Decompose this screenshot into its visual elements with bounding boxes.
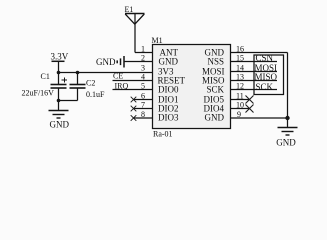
svg-text:7: 7 bbox=[141, 101, 145, 110]
svg-text:15: 15 bbox=[236, 54, 244, 63]
junction rail C1 bbox=[57, 71, 61, 75]
wire 3.3V stem bbox=[58, 61, 60, 72]
wire pin15 CSN bbox=[231, 61, 278, 63]
svg-text:0.1uF: 0.1uF bbox=[86, 90, 105, 99]
junction right GND bbox=[285, 116, 289, 120]
power rail 3.3V bar bbox=[52, 60, 65, 62]
svg-text:16: 16 bbox=[236, 45, 244, 54]
svg-text:22uF/16V: 22uF/16V bbox=[22, 89, 55, 98]
ground symbol left bbox=[49, 111, 69, 119]
svg-text:CSN: CSN bbox=[256, 53, 274, 63]
svg-text:14: 14 bbox=[236, 64, 244, 73]
wire pin8 stub bbox=[133, 117, 153, 119]
capacitor C2 stem bottom bbox=[77, 89, 79, 101]
wire pin2 GND stub bbox=[124, 61, 153, 63]
svg-text:3.3V: 3.3V bbox=[51, 52, 69, 62]
svg-text:GND: GND bbox=[96, 57, 116, 67]
svg-text:C2: C2 bbox=[86, 79, 95, 88]
antenna E1 bbox=[125, 13, 145, 15]
svg-text:GND: GND bbox=[50, 120, 70, 130]
svg-text:2: 2 bbox=[141, 54, 145, 63]
svg-text:1: 1 bbox=[141, 45, 145, 54]
no-connect X pin8 bbox=[131, 115, 137, 121]
no-connect X pin7 bbox=[131, 106, 137, 112]
ground symbol rotated at pin2 bbox=[117, 56, 124, 68]
svg-text:C1: C1 bbox=[41, 72, 50, 81]
capacitor C1 plates bbox=[51, 85, 67, 89]
svg-text:SCK: SCK bbox=[206, 85, 224, 95]
junction rail C2 bbox=[76, 71, 80, 75]
svg-text:5: 5 bbox=[141, 82, 145, 91]
wire 3V3 rail to pin3 bbox=[59, 72, 153, 74]
svg-text:SCK: SCK bbox=[256, 82, 274, 92]
svg-text:10: 10 bbox=[236, 101, 244, 110]
svg-text:M1: M1 bbox=[152, 36, 163, 45]
IC U/M1 box bbox=[153, 45, 231, 129]
capacitor C1 stem bottom bbox=[58, 89, 60, 111]
no-connect X pin6 bbox=[131, 97, 137, 103]
svg-text:MISO: MISO bbox=[255, 72, 278, 82]
svg-text:Ra-01: Ra-01 bbox=[153, 130, 173, 139]
ground symbol right bbox=[278, 118, 298, 135]
svg-text:11: 11 bbox=[236, 92, 244, 101]
wire pin12 SCK bbox=[231, 89, 278, 91]
capacitor C2 stem top bbox=[77, 73, 79, 85]
svg-text:12: 12 bbox=[236, 82, 244, 91]
svg-text:GND: GND bbox=[159, 57, 179, 67]
capacitor C2 plates bbox=[70, 85, 86, 89]
wire pin6 stub bbox=[133, 99, 153, 101]
svg-text:NSS: NSS bbox=[207, 57, 224, 67]
svg-text:DIO3: DIO3 bbox=[158, 113, 179, 123]
wire pin14 MOSI bbox=[231, 71, 278, 73]
antenna E1 diagonals bbox=[125, 14, 144, 24]
svg-text:CE: CE bbox=[113, 72, 123, 81]
svg-text:6: 6 bbox=[141, 92, 145, 101]
svg-text:13: 13 bbox=[236, 73, 244, 82]
wire C2 to C1 bottom bbox=[59, 100, 78, 102]
wire pin10 stub bbox=[231, 108, 250, 110]
no-connect X pin11 bbox=[246, 96, 254, 104]
capacitor C1 stem top bbox=[58, 73, 60, 85]
no-connect X pin10 bbox=[246, 105, 254, 113]
wire pin11 stub bbox=[231, 99, 250, 101]
svg-text:IRQ: IRQ bbox=[115, 82, 129, 91]
svg-text:DIO0: DIO0 bbox=[158, 85, 179, 95]
svg-text:8: 8 bbox=[141, 110, 145, 119]
wire pin1 ANT bbox=[135, 52, 153, 54]
svg-text:3: 3 bbox=[141, 64, 145, 73]
svg-text:GND: GND bbox=[205, 113, 225, 123]
wire pin5 IRQ stub bbox=[113, 89, 153, 91]
capacitor C1 plus sign bbox=[62, 78, 68, 83]
svg-text:9: 9 bbox=[237, 110, 241, 119]
junction C1 bottom bbox=[57, 99, 61, 103]
svg-text:GND: GND bbox=[276, 137, 296, 147]
wire pin9 to GND bbox=[231, 117, 288, 119]
wire antenna stem bbox=[134, 14, 136, 53]
wire right vertical GND net bbox=[287, 53, 289, 119]
svg-text:E1: E1 bbox=[125, 5, 134, 14]
wire pin13 MISO bbox=[231, 80, 278, 82]
port box CSN/MOSI/MISO/SCK bbox=[254, 55, 284, 95]
svg-text:4: 4 bbox=[141, 73, 145, 82]
wire pin16 to right bbox=[231, 52, 288, 54]
wire pin7 stub bbox=[133, 108, 153, 110]
wire pin4 CE stub bbox=[113, 80, 153, 82]
